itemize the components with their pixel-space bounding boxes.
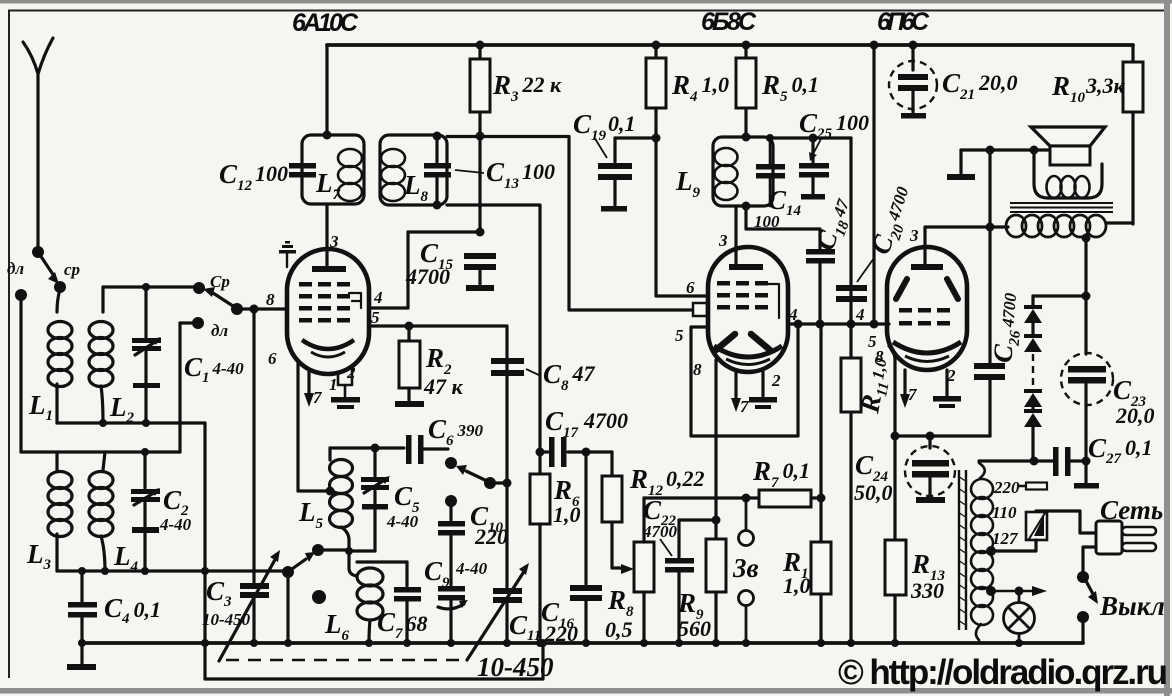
svg-text:10-450: 10-450 xyxy=(477,652,554,682)
svg-text:10-450: 10-450 xyxy=(202,610,251,629)
wire: L3/L4 bottom line xyxy=(57,569,288,572)
svg-text:4: 4 xyxy=(855,305,865,324)
svg-text:дл: дл xyxy=(7,259,24,278)
power transformer core xyxy=(959,470,966,630)
wire: V2 anode line down to R7 xyxy=(819,324,822,542)
wire: tank to tube grid cap pin 3 xyxy=(325,204,328,266)
V2 diode plates xyxy=(716,334,770,350)
trimmer capacitor C9 4-40 xyxy=(438,586,468,647)
wire: AF takeoff line xyxy=(644,496,759,499)
wire: cathode node line xyxy=(895,434,990,437)
node unused дл contact xyxy=(312,590,326,604)
svg-text:R103,3к: R103,3к xyxy=(1051,71,1126,106)
svg-text:8: 8 xyxy=(266,290,275,309)
V1 grids xyxy=(299,282,350,323)
svg-text:R2: R2 xyxy=(425,343,452,378)
rectifier diode D4 xyxy=(1024,407,1042,461)
wire: R4 to V2 pin6 xyxy=(656,138,708,296)
wire: V1 pin5 anode line xyxy=(369,326,507,483)
wire: rectifier top line xyxy=(1033,294,1086,297)
inductor L5 xyxy=(330,448,358,576)
capacitor C24 50,0 electrolytic xyxy=(905,436,955,503)
capacitor C27 0,1 (series) xyxy=(1053,447,1099,489)
wire: screen feed from rail xyxy=(872,45,875,324)
resistor R3 22k xyxy=(470,45,490,232)
svg-text:C5: C5 xyxy=(394,481,420,516)
wire: V3 pin3 anode to output transformer xyxy=(925,227,1008,265)
wire: V2 cathode to bus xyxy=(714,360,717,500)
svg-text:R50,1: R50,1 xyxy=(761,70,819,105)
resistor R7 0,1 xyxy=(759,490,826,507)
svg-text:Выкл: Выкл xyxy=(1099,591,1165,621)
mains tap 220 terminal bar xyxy=(1019,483,1047,490)
resistor R2 47k xyxy=(395,322,424,408)
svg-text:4700: 4700 xyxy=(642,522,678,541)
svg-text:L5: L5 xyxy=(298,497,324,532)
primary winding xyxy=(1006,215,1106,237)
page frame: top black line xyxy=(8,10,1164,12)
svg-text:7: 7 xyxy=(313,388,323,407)
svg-text:4-40: 4-40 xyxy=(159,515,192,534)
scan border: right grey strip xyxy=(1164,0,1170,696)
V3 cathode xyxy=(893,342,961,353)
inductor L6 xyxy=(357,568,383,643)
V3 anode plate xyxy=(911,264,943,270)
svg-text:R120,22: R120,22 xyxy=(629,464,705,499)
wire: L2 top to СР contact xyxy=(103,285,199,288)
shield ground at V1 top xyxy=(279,241,296,267)
rectifier diode D3 xyxy=(1024,389,1042,407)
tank circuit L9/C14 box xyxy=(713,137,773,206)
wire: V2 pin5 feedback box xyxy=(691,324,798,436)
svg-text:L3: L3 xyxy=(26,539,52,573)
capacitor C17 4700 (series) xyxy=(536,437,613,467)
svg-text:L1: L1 xyxy=(28,390,53,424)
inductor L3 xyxy=(48,452,72,571)
svg-text:дл: дл xyxy=(211,321,228,340)
svg-text:1: 1 xyxy=(329,375,338,394)
svg-text:R8: R8 xyxy=(607,585,634,620)
svg-text:7: 7 xyxy=(740,397,750,416)
svg-text:20,0: 20,0 xyxy=(1115,403,1155,428)
svg-text:220: 220 xyxy=(474,524,508,549)
svg-text:L2: L2 xyxy=(109,392,135,426)
voice coil xyxy=(1050,146,1090,165)
resistor R5 0,1 xyxy=(736,45,756,137)
wire: main ground bus xyxy=(82,641,1083,645)
svg-text:C12100: C12100 xyxy=(219,159,288,194)
svg-text:C11: C11 xyxy=(509,610,541,644)
capacitor C14 100 xyxy=(756,134,785,206)
capacitor C20 4700 xyxy=(836,285,867,302)
svg-text:330: 330 xyxy=(910,578,944,603)
wire: V1 pin6 oscillator grid xyxy=(298,362,330,491)
trimmer capacitor C2 4-40 xyxy=(131,452,160,571)
capacitor C8 47 xyxy=(491,358,524,376)
svg-text:127: 127 xyxy=(992,529,1019,548)
svg-text:0,5: 0,5 xyxy=(605,617,633,642)
scan border: top grey strip xyxy=(0,0,1172,4)
node ср contact xyxy=(54,281,66,293)
capacitor C7 68 xyxy=(357,562,421,647)
capacitor C4 0,1 xyxy=(68,571,97,643)
vacuum tube V1 6А10С envelope xyxy=(287,249,369,374)
V1 grid bracket xyxy=(349,293,361,308)
pilot lamp tap with heater arrow xyxy=(986,586,1047,596)
inductor L7 xyxy=(338,149,362,201)
svg-text:R322 к: R322 к xyxy=(492,70,562,105)
mains plug xyxy=(1096,521,1156,554)
V1 cathode xyxy=(302,340,354,349)
antenna xyxy=(23,38,53,250)
wire: V3 pin5 grid down xyxy=(889,346,895,643)
trimmer capacitor C1 4-40 xyxy=(132,283,161,423)
V2 heater pin 7 arrow xyxy=(731,372,741,412)
inductor L2 xyxy=(89,287,113,423)
wire: rail down to L7 tank xyxy=(325,45,328,135)
svg-text:6П6С: 6П6С xyxy=(877,8,930,36)
svg-text:C40,1: C40,1 xyxy=(104,593,161,627)
svg-text:C264700: C264700 xyxy=(987,291,1027,364)
band switch S1c arm xyxy=(282,544,349,578)
capacitor C22 4700 xyxy=(665,516,721,648)
svg-text:5: 5 xyxy=(675,326,684,345)
variable capacitor C3 10-450 xyxy=(219,305,280,662)
transformer core xyxy=(1010,203,1113,212)
svg-text:3: 3 xyxy=(909,226,919,245)
vacuum tube V3 6П6С envelope xyxy=(887,247,967,370)
loudspeaker cone xyxy=(1031,127,1105,146)
svg-text:47 к: 47 к xyxy=(423,374,464,399)
svg-text:1,0: 1,0 xyxy=(553,502,581,527)
svg-text:220: 220 xyxy=(993,478,1020,497)
potentiometer R8 0,5 xyxy=(634,498,654,647)
svg-text:4-40: 4-40 xyxy=(455,559,488,578)
resistor R12 0,22 xyxy=(602,452,634,574)
svg-text:ср: ср xyxy=(64,260,80,279)
wire: gang frame detour xyxy=(205,643,543,679)
wire: screen line between tubes xyxy=(788,322,889,325)
capacitor C21 20,0 electrolytic xyxy=(889,45,937,119)
capacitor C10 220 xyxy=(438,495,465,585)
svg-text:R70,1: R70,1 xyxy=(752,456,810,491)
svg-text:C174700: C174700 xyxy=(545,406,628,441)
wire: C25 line down through C20 to R11 xyxy=(849,138,852,643)
switch S1d arm xyxy=(445,457,512,489)
ground at speaker xyxy=(947,150,975,180)
secondary winding xyxy=(1047,176,1090,198)
svg-text:2: 2 xyxy=(771,371,781,390)
variable capacitor C11 10-450 xyxy=(467,483,529,660)
trimmer capacitor C5 4-40 xyxy=(345,448,390,555)
wire: osc grid top line xyxy=(330,446,404,449)
wire: rectifier output node line xyxy=(979,459,1052,462)
svg-text:6: 6 xyxy=(686,278,695,297)
wire: voice-coil common line xyxy=(961,148,1050,151)
svg-text:4: 4 xyxy=(373,288,383,307)
wire: L3/L4 return to ground xyxy=(286,575,289,643)
svg-text:6А10С: 6А10С xyxy=(292,9,359,37)
inductor L9 xyxy=(715,148,738,200)
fuse xyxy=(1026,512,1047,540)
svg-text:L6: L6 xyxy=(324,609,350,644)
secondary winding frame xyxy=(1034,151,1102,198)
grid terminal square V2 xyxy=(693,303,707,316)
svg-text:8: 8 xyxy=(693,360,702,379)
vacuum tube V2 6Б8С envelope xyxy=(708,247,788,372)
ground under C4 xyxy=(67,639,96,670)
capacitor C15 4700 xyxy=(408,228,496,309)
resistor R9 560 xyxy=(706,500,726,647)
svg-text:C14-40: C14-40 xyxy=(184,352,244,386)
svg-text:Сеть: Сеть xyxy=(1100,495,1163,525)
terminals 3в xyxy=(739,498,754,643)
V3 beam plates xyxy=(896,279,958,299)
svg-text:C3: C3 xyxy=(206,576,232,610)
svg-text:110: 110 xyxy=(992,503,1017,522)
wire: V1 pin4 screen to C15/R3 node xyxy=(369,306,408,309)
wire: LW antenna line xyxy=(21,450,180,453)
V2 cathode xyxy=(714,346,782,357)
wire: L1/L2 bottoms bus xyxy=(57,421,205,424)
svg-text:C847: C847 xyxy=(543,359,596,394)
svg-text:Ср: Ср xyxy=(210,272,230,291)
pilot lamp xyxy=(1004,591,1035,643)
capacitor C13 100 xyxy=(424,132,451,210)
capacitor C23 20,0 electrolytic xyxy=(1061,296,1113,461)
node дл contact (osc switch) xyxy=(180,317,204,452)
V1 pins 1,2 to ground xyxy=(331,367,360,409)
wire: AVC line from L8 top xyxy=(447,137,693,311)
wire: V2 pin3 to tank xyxy=(734,206,737,264)
resistor R4 1,0 xyxy=(646,45,666,138)
svg-text:8: 8 xyxy=(875,347,884,366)
wire: pin 8 grid line xyxy=(237,307,287,310)
inductor L1 xyxy=(48,289,72,423)
svg-text:C9: C9 xyxy=(424,556,450,591)
svg-text:3: 3 xyxy=(718,231,728,250)
resistor R11 1,0 xyxy=(841,358,861,412)
leader C13 xyxy=(455,170,484,173)
node B+ tap on primary xyxy=(1082,234,1091,243)
svg-text:3в: 3в xyxy=(732,553,759,583)
capacitor C16 220 xyxy=(570,452,602,647)
page frame: left black line xyxy=(8,10,10,678)
wire: primary right end to R10 xyxy=(1106,221,1133,224)
V2 anode plate xyxy=(729,264,763,270)
gang coupling dashed line xyxy=(226,659,466,662)
node дл terminal xyxy=(15,289,27,301)
svg-text:220: 220 xyxy=(544,621,578,646)
resistor R1 1,0 xyxy=(811,542,831,647)
band switch S1b arm xyxy=(193,282,243,315)
power switch Выкл xyxy=(1077,571,1098,643)
tank circuit L8/C13 box xyxy=(380,135,447,205)
svg-text:© http://oldradio.qrz.ru: © http://oldradio.qrz.ru xyxy=(838,653,1168,692)
wire: B+ rail xyxy=(327,43,1133,47)
capacitor C26 4700 (feedback) xyxy=(974,150,1005,436)
svg-text:6: 6 xyxy=(268,349,277,368)
dashed continuation of rectifier stack xyxy=(1032,354,1034,388)
resistor R6 1,0 xyxy=(530,452,550,647)
V2 grids xyxy=(717,281,768,310)
V1 anode plate xyxy=(312,266,346,272)
svg-text:560: 560 xyxy=(678,616,711,641)
inductor L4 xyxy=(89,452,113,571)
tank circuit L7/C12 box xyxy=(302,135,364,204)
V3 grids xyxy=(899,308,950,326)
capacitor C25 100 xyxy=(773,134,851,200)
wire: plug to power switch xyxy=(1083,547,1096,572)
V3 pin2 ground xyxy=(933,370,961,408)
svg-text:4700: 4700 xyxy=(405,264,450,289)
svg-text:L9: L9 xyxy=(675,166,701,201)
svg-text:C2: C2 xyxy=(163,485,189,519)
power transformer winding xyxy=(971,461,993,643)
svg-text:C13100: C13100 xyxy=(486,157,555,192)
svg-text:C768: C768 xyxy=(377,607,428,642)
inductor L8 xyxy=(381,149,405,201)
capacitor C12 100 xyxy=(289,163,316,178)
wire: fuse bottom to 127 tap xyxy=(990,540,1036,551)
wire: corner down to gang frame xyxy=(203,423,206,679)
V1 heater pin 7 arrow xyxy=(304,372,314,407)
band switch S1a arm (antenna) xyxy=(32,246,59,284)
svg-text:4-40: 4-40 xyxy=(386,512,419,531)
wire: long vertical from L8 bottom xyxy=(447,205,540,452)
svg-text:C2120,0: C2120,0 xyxy=(942,68,1018,103)
svg-text:C270,1: C270,1 xyxy=(1088,433,1153,467)
svg-text:1,0: 1,0 xyxy=(783,573,811,598)
wire: secondary tap down xyxy=(988,148,991,151)
svg-text:50,0: 50,0 xyxy=(854,480,893,505)
svg-text:6Б8С: 6Б8С xyxy=(701,8,757,36)
svg-text:R41,0: R41,0 xyxy=(671,70,729,105)
capacitor C19 0,1 xyxy=(598,134,661,212)
scan border: bottom grey strip xyxy=(0,688,1172,694)
resistor R13 330 xyxy=(885,540,906,595)
capacitor C18 47 xyxy=(742,202,836,325)
wire: fuse top to mains plug xyxy=(1036,511,1096,533)
V3 heater pin 7 arrow xyxy=(900,370,910,408)
V2 pin2 ground xyxy=(749,372,777,409)
svg-text:C6390: C6390 xyxy=(428,414,484,449)
wire: B+ from rectifier xyxy=(1084,238,1087,296)
svg-text:L7: L7 xyxy=(315,168,341,203)
resistor R10 3,3k xyxy=(1123,45,1143,224)
rectifier diode D2 xyxy=(1024,323,1042,352)
capacitor C6 390 (series) xyxy=(406,435,448,464)
svg-text:5: 5 xyxy=(371,308,380,327)
V2 grid bracket xyxy=(768,284,779,318)
wire: дл terminal down to LW coils xyxy=(19,300,22,452)
rectifier diode D1 xyxy=(1024,296,1042,323)
